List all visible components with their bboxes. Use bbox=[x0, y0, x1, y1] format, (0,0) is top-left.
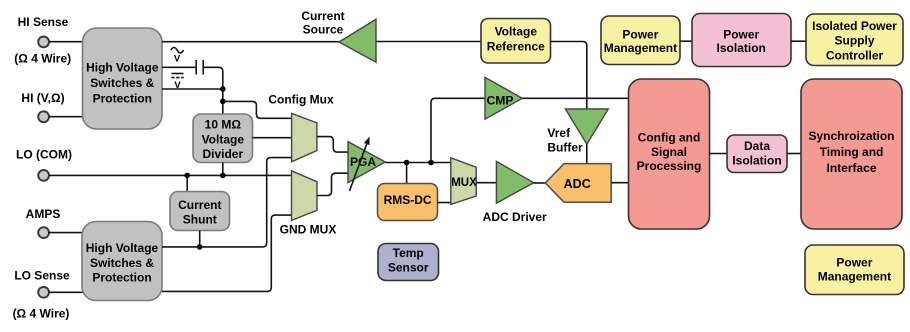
node junction dot 1 (AC/DC join) bbox=[220, 86, 226, 92]
svg-text:10 MΩ: 10 MΩ bbox=[205, 118, 242, 132]
wire Power Isolation to IPSC bbox=[791, 40, 806, 42]
wire DC path HV box to node bbox=[162, 88, 223, 90]
block Data Isolation bbox=[727, 135, 787, 173]
terminal AMPS bbox=[38, 227, 49, 238]
gain arrow on PGA bbox=[350, 137, 370, 192]
svg-text:High Voltage: High Voltage bbox=[86, 61, 159, 75]
wire shunt top bbox=[186, 175, 188, 191]
block Power Isolation bbox=[692, 14, 791, 67]
block Current Shunt bbox=[170, 192, 230, 231]
svg-text:(Ω 4 Wire): (Ω 4 Wire) bbox=[13, 307, 70, 321]
wire MUX output to ADC Driver bbox=[476, 182, 496, 184]
wire voltage reference to Vref buffer bbox=[551, 42, 587, 110]
wire HI (V,Ohm) to HV box bbox=[49, 116, 83, 118]
svg-text:Management: Management bbox=[818, 270, 891, 284]
adc ADC pentagon bbox=[545, 164, 611, 203]
wire Config Mux output to PGA bbox=[317, 137, 348, 153]
svg-text:Controller: Controller bbox=[826, 49, 884, 63]
wire Data Isolation to Sync box bbox=[787, 153, 801, 155]
svg-text:CMP: CMP bbox=[487, 94, 514, 108]
svg-text:Power: Power bbox=[622, 27, 658, 41]
op-amp CMP bbox=[485, 77, 522, 119]
svg-text:Protection: Protection bbox=[92, 270, 151, 284]
svg-text:Processing: Processing bbox=[637, 159, 702, 173]
svg-text:MUX: MUX bbox=[451, 177, 477, 189]
block RMS-DC bbox=[378, 184, 438, 221]
terminal HI (V,Ohm) bbox=[38, 111, 49, 122]
svg-text:Signal: Signal bbox=[651, 145, 687, 159]
op-amp ADC Driver bbox=[496, 161, 533, 203]
svg-text:Switches &: Switches & bbox=[90, 256, 154, 270]
block Isolated Power Supply Controller bbox=[806, 14, 903, 66]
svg-text:Voltage: Voltage bbox=[202, 132, 245, 146]
terminal LO (COM) bbox=[38, 170, 49, 181]
block Power Management (top) bbox=[601, 16, 680, 65]
block Voltage Reference bbox=[481, 19, 551, 64]
svg-text:Data: Data bbox=[744, 139, 770, 153]
block High Voltage Switches & Protection (top) bbox=[83, 28, 163, 129]
svg-text:Isolation: Isolation bbox=[732, 153, 781, 167]
wire divider bottom to LO COM rail bbox=[222, 163, 224, 176]
wire top rail HV box to current source bbox=[162, 41, 339, 43]
wire RMS-DC input bbox=[406, 163, 408, 184]
wire CMP input bbox=[431, 98, 485, 162]
svg-text:Synchroization: Synchroization bbox=[808, 129, 894, 143]
terminal HI Sense bbox=[38, 37, 49, 48]
node junction dot CMP tap bbox=[428, 160, 434, 166]
svg-text:Source: Source bbox=[303, 23, 344, 37]
svg-text:HI (V,Ω): HI (V,Ω) bbox=[21, 91, 64, 105]
label Vref Buffer bbox=[547, 126, 583, 155]
svg-text:Shunt: Shunt bbox=[183, 213, 217, 227]
DC symbol (bar over dashed bar over V) bbox=[171, 74, 183, 92]
svg-text:V: V bbox=[174, 53, 181, 64]
svg-text:Config and: Config and bbox=[638, 131, 701, 145]
svg-text:Buffer: Buffer bbox=[547, 141, 583, 155]
wire Config box to Data Isolation bbox=[710, 153, 728, 155]
svg-text:Current: Current bbox=[301, 9, 344, 23]
wire capacitor to DC node bbox=[204, 67, 223, 89]
AC symbol (tilde over V) bbox=[171, 48, 184, 65]
svg-text:LO (COM): LO (COM) bbox=[16, 148, 72, 162]
wire PM to Power Isolation bbox=[680, 40, 692, 42]
svg-text:Current: Current bbox=[178, 198, 221, 212]
svg-text:LO Sense: LO Sense bbox=[14, 268, 70, 282]
wire node to Config Mux input 1 bbox=[223, 101, 292, 118]
block High Voltage Switches & Protection (bottom) bbox=[82, 222, 162, 301]
wire ADC output to Config and Signal Processing bbox=[611, 182, 629, 184]
wire LO Sense to HV box bbox=[48, 291, 83, 293]
wire divider output to Config Mux input 2 bbox=[253, 137, 292, 139]
wire node down to divider bbox=[222, 89, 224, 114]
wire PGA output rail bbox=[385, 162, 451, 164]
svg-text:Power: Power bbox=[836, 255, 872, 269]
node junction dot 2 bbox=[220, 99, 226, 105]
svg-text:PGA: PGA bbox=[350, 155, 376, 169]
node junction dot on LO COM (shunt top) bbox=[184, 173, 190, 179]
svg-text:(Ω 4 Wire): (Ω 4 Wire) bbox=[14, 52, 71, 66]
svg-text:Switches &: Switches & bbox=[90, 76, 154, 90]
block Synchroization Timing and Interface bbox=[801, 79, 902, 229]
mux Config Mux bbox=[292, 113, 317, 161]
svg-text:Supply: Supply bbox=[834, 34, 874, 48]
svg-text:Divider: Divider bbox=[202, 147, 243, 161]
svg-text:AMPS: AMPS bbox=[26, 207, 61, 221]
op-amp Vref Buffer (down) bbox=[565, 109, 608, 144]
svg-text:Power: Power bbox=[723, 27, 759, 41]
svg-text:Isolated Power: Isolated Power bbox=[812, 19, 897, 33]
wire Vref buffer to ADC bbox=[586, 144, 588, 163]
svg-text:Isolation: Isolation bbox=[717, 41, 766, 55]
wire GND MUX output to PGA bbox=[317, 173, 348, 195]
capacitor (AC coupling) bbox=[196, 60, 203, 75]
svg-text:RMS-DC: RMS-DC bbox=[384, 193, 432, 207]
wire HI Sense to HV box bbox=[49, 41, 83, 43]
svg-text:Vref: Vref bbox=[547, 126, 571, 140]
svg-text:Reference: Reference bbox=[487, 40, 545, 54]
svg-text:Interface: Interface bbox=[826, 161, 876, 175]
wire RMS-DC output to MUX bbox=[438, 202, 451, 204]
svg-text:High Voltage: High Voltage bbox=[86, 241, 159, 255]
svg-text:ADC: ADC bbox=[564, 177, 591, 191]
svg-text:Voltage: Voltage bbox=[495, 24, 538, 38]
op-amp PGA bbox=[348, 142, 385, 183]
node junction dot on LO COM (divider bottom) bbox=[220, 173, 226, 179]
wire LO sense path HV box to GND MUX input 2 bbox=[162, 215, 292, 291]
wire shunt bottom to amps rail bbox=[199, 231, 201, 247]
svg-text:Protection: Protection bbox=[93, 92, 152, 106]
block 10 MOhm Voltage Divider bbox=[193, 114, 253, 163]
svg-text:ADC Driver: ADC Driver bbox=[483, 210, 547, 224]
wire LO COM rail bbox=[49, 174, 292, 176]
svg-text:Sensor: Sensor bbox=[388, 261, 429, 275]
mux GND MUX bbox=[292, 171, 318, 221]
wire AMPS to HV box bbox=[48, 232, 83, 234]
svg-text:HI Sense: HI Sense bbox=[18, 15, 69, 29]
wire AC path HV box to capacitor bbox=[162, 66, 195, 68]
svg-text:Config Mux: Config Mux bbox=[268, 92, 334, 106]
wire current source to voltage reference bbox=[376, 41, 481, 43]
block Config and Signal Processing bbox=[629, 79, 710, 229]
svg-text:Temp: Temp bbox=[393, 246, 424, 260]
wire CMP output to Config and Signal Processing bbox=[522, 97, 629, 99]
wire amps rail HV box to Config Mux input 3 bbox=[162, 158, 292, 247]
block Power Management (bottom right) bbox=[805, 245, 904, 295]
label Current Source bbox=[301, 9, 344, 37]
svg-text:Management: Management bbox=[604, 41, 677, 55]
svg-text:GND MUX: GND MUX bbox=[280, 223, 337, 237]
mux MUX bbox=[451, 158, 477, 205]
node junction dot on amps rail bbox=[197, 244, 203, 250]
svg-text:Timing and: Timing and bbox=[820, 145, 884, 159]
block Temp Sensor bbox=[378, 244, 439, 281]
node junction dot RMS-DC tap bbox=[404, 160, 410, 166]
current source triangle bbox=[339, 19, 376, 62]
wire ADC Driver to ADC bbox=[534, 182, 546, 184]
terminal LO Sense bbox=[38, 287, 49, 298]
